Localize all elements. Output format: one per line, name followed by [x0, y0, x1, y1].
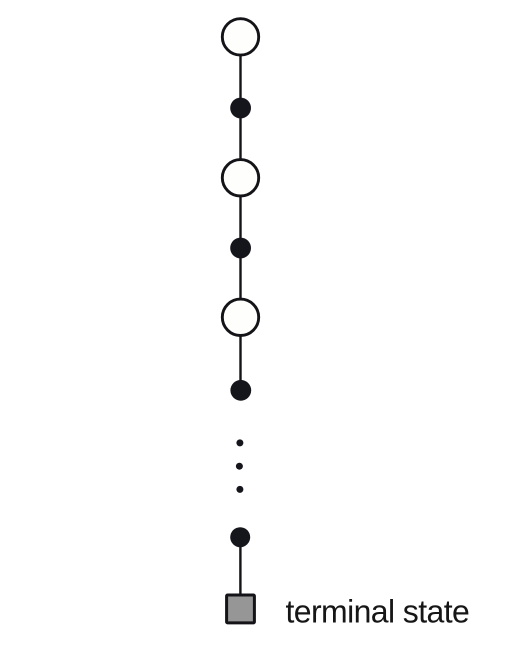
ellipsis dot 3	[236, 486, 243, 493]
action node A2 (filled dot)	[230, 238, 251, 259]
ellipsis dot 1	[236, 439, 243, 446]
state node S2 (open circle)	[222, 160, 258, 196]
action node A1 (filled dot)	[230, 98, 251, 119]
wire: from last action node down to terminal state square	[239, 537, 241, 608]
action node A4 (filled dot, before terminal)	[230, 527, 250, 547]
svg-text:terminal state: terminal state	[286, 594, 470, 630]
terminal state (gray square)	[227, 595, 255, 623]
ellipsis dot 2	[236, 463, 243, 470]
state node S1 (open circle)	[222, 19, 258, 55]
wire: chain from top state through actions to last action node	[239, 37, 241, 390]
action node A3 (filled dot)	[230, 380, 251, 401]
state node S3 (open circle)	[222, 299, 258, 335]
